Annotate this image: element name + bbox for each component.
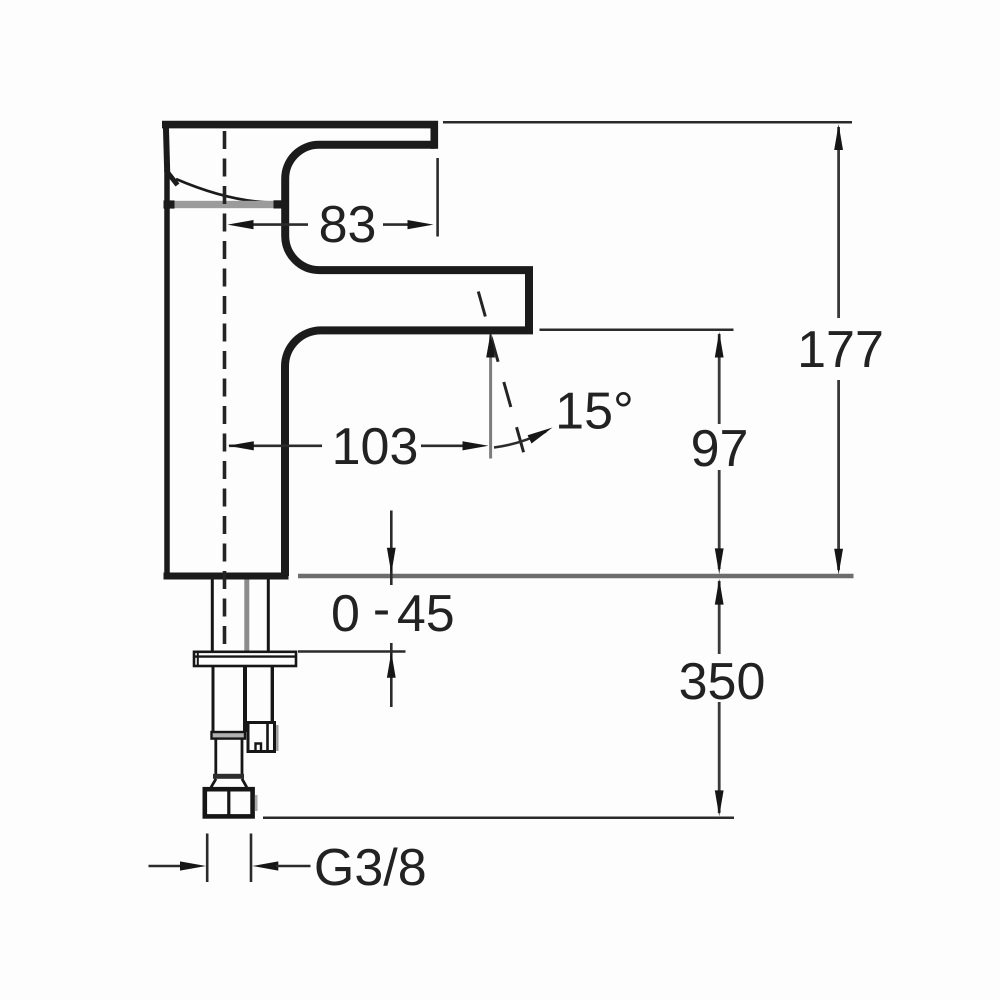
- lever handle left edge: [166, 122, 167, 172]
- dashed centerline: [223, 131, 227, 650]
- connector block inner line: [266, 724, 269, 750]
- dim 350 top arrowhead: [715, 579, 724, 605]
- dim 103 right arrowhead: [463, 441, 489, 450]
- dim 177 top extension line: [443, 121, 852, 124]
- mounting flange: [194, 652, 296, 666]
- dim 97 extension line: [540, 328, 734, 331]
- dim 350 line lower segment: [718, 702, 721, 813]
- hose narrow right edge: [241, 739, 244, 775]
- thin arc on body top: [176, 179, 277, 203]
- dim 0-45 down arrowhead: [387, 548, 396, 574]
- handle C-curve + spout outline + body right edge: [285, 145, 529, 576]
- dim 97 top arrowhead: [715, 332, 724, 358]
- svg-text:350: 350: [679, 653, 766, 711]
- svg-text:G3/8: G3/8: [314, 839, 427, 897]
- dim 177 bottom arrowhead: [834, 549, 843, 575]
- svg-text:97: 97: [691, 420, 749, 478]
- dim 97 line lower segment: [718, 470, 721, 569]
- body left edge: [164, 170, 170, 576]
- hose ferrule: [212, 732, 246, 739]
- spray vertical gray reference line: [489, 335, 492, 459]
- flare right: [242, 779, 247, 788]
- flare left: [211, 779, 216, 788]
- dim 83 right extension line: [436, 158, 439, 237]
- G3/8 nut: [205, 789, 253, 816]
- spray angle dashed line: [478, 292, 524, 456]
- spray reference up arrowhead: [486, 333, 495, 358]
- svg-text:103: 103: [332, 418, 419, 476]
- dim G38 left tick: [206, 834, 209, 883]
- shank gray hose line: [244, 580, 249, 652]
- dim G38 right shaft: [276, 865, 311, 868]
- dim 97 bottom arrowhead: [715, 548, 724, 574]
- hose left edge below flange: [212, 666, 215, 733]
- dim 0-45 upper shaft: [390, 511, 393, 586]
- lever handle right edge: [430, 121, 438, 149]
- dim 83 right arrowhead: [408, 220, 434, 229]
- flange inner line: [195, 655, 295, 657]
- dim 350 line upper segment: [718, 581, 721, 654]
- svg-text:45: 45: [397, 585, 455, 643]
- dim 177 line upper segment: [837, 127, 840, 318]
- connector block shadow line: [276, 725, 278, 751]
- nut middle face line: [227, 791, 230, 815]
- dim G38 right tick: [250, 834, 253, 883]
- dim 103 line right segment: [421, 444, 464, 447]
- dim 83 line left segment: [252, 223, 308, 226]
- dim 0-45 flange extension line: [298, 650, 406, 652]
- angle arc arrowhead: [528, 428, 553, 444]
- dim 0-45 lower shaft: [390, 643, 393, 707]
- connector block notch: [256, 744, 262, 751]
- hose crimp dark band: [213, 774, 244, 779]
- svg-text:83: 83: [319, 196, 377, 254]
- dim 350 bottom extension line: [263, 817, 734, 820]
- black band right end: [274, 200, 289, 208]
- dim 350 bottom arrowhead: [715, 790, 724, 816]
- dim G38 right arrowhead: [252, 861, 278, 870]
- gray cartridge ring band: [174, 201, 276, 208]
- deck counter line: [298, 574, 854, 579]
- dim 103 left arrowhead: [228, 441, 254, 450]
- body bottom edge: [164, 573, 289, 580]
- dim 83 line right segment: [383, 223, 409, 226]
- dim 177 line lower segment: [837, 380, 840, 570]
- dim G38 left arrowhead: [180, 861, 206, 870]
- svg-text:15°: 15°: [555, 383, 634, 441]
- flange left cap line: [197, 652, 199, 666]
- band left black cap: [164, 200, 175, 208]
- hose middle line below flange: [243, 666, 247, 732]
- shank right edge: [267, 580, 270, 652]
- dim 103 line left segment: [229, 444, 322, 447]
- rigid pipe right edge: [271, 666, 274, 723]
- body left notch: [167, 171, 178, 185]
- svg-text:177: 177: [797, 321, 884, 379]
- dim 177 top arrowhead: [834, 124, 843, 150]
- lever handle top edge: [162, 121, 438, 129]
- svg-text:0: 0: [331, 585, 360, 643]
- dim 97 line upper segment: [718, 334, 721, 424]
- dim 83 left arrowhead: [228, 220, 254, 229]
- dim 0-45 up arrowhead: [387, 652, 396, 678]
- angle arc: [494, 432, 546, 448]
- svg-text:-: -: [373, 581, 390, 639]
- shank left edge: [211, 580, 214, 652]
- nut right sliver: [255, 795, 258, 811]
- hose narrow left edge: [214, 739, 217, 775]
- connector block: [248, 723, 275, 752]
- dim G38 left shaft: [149, 865, 184, 868]
